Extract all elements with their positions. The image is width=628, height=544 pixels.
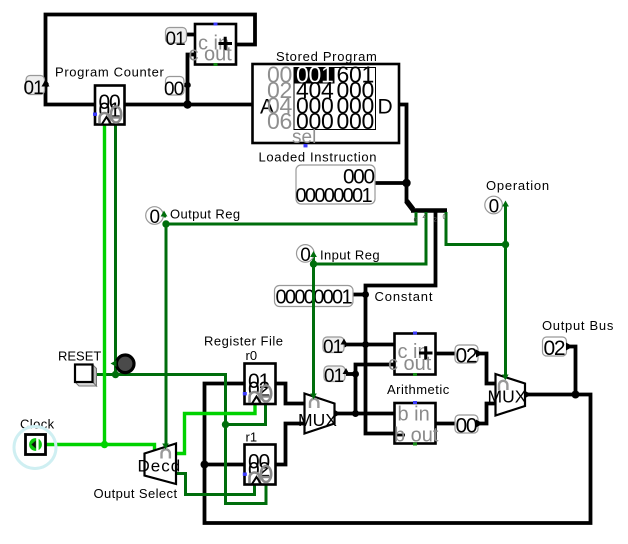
svg-text:Output Bus: Output Bus (542, 318, 614, 333)
wire mux2 out to output-bus loop (205, 384, 591, 524)
svg-text:c out: c out (388, 353, 432, 375)
svg-text:MUX: MUX (298, 410, 337, 430)
pin IN02 value 01 (adder increment) (166, 28, 187, 51)
node r1-D junction (201, 461, 209, 469)
node probe2 junction (352, 371, 359, 378)
wire splitter leg2 input-reg net (314, 212, 427, 396)
register U5 r0 (243, 348, 276, 404)
wire output-reg pin stub (164, 215, 167, 218)
svg-text:01: 01 (324, 366, 344, 387)
ROM U3 Stored Program (253, 49, 400, 148)
wire splitter leg3 to constant node and adder/sub inputs (366, 212, 436, 434)
WIRES-BRIGHTGREEN (46, 125, 255, 454)
svg-text:b in: b in (398, 404, 430, 426)
wire decoder out1 to r1 enable (176, 474, 255, 495)
wire r0 Q to mux1 in1 (276, 384, 305, 404)
node mux1-out junction (352, 410, 359, 417)
mux U7 MUX (register select) (298, 394, 341, 434)
pin OUT1 Output Reg (146, 207, 241, 229)
svg-text:02: 02 (544, 337, 565, 360)
node constant junction (362, 291, 369, 298)
wire splitter leg4 operation net (446, 212, 506, 245)
svg-text:000: 000 (337, 108, 374, 134)
wire operation pin to mux2 select (504, 205, 507, 376)
svg-text:Decd: Decd (138, 457, 182, 476)
svg-text:0: 0 (443, 214, 447, 221)
svg-text:r1: r1 (246, 430, 258, 445)
svg-text:00000001: 00000001 (296, 185, 373, 207)
wire PC Q to ROM A (125, 103, 253, 107)
node pin01 attach (42, 81, 48, 87)
probe P5 value 02 (adder2 out) (455, 345, 483, 368)
svg-text:00: 00 (456, 415, 477, 438)
svg-text:Constant: Constant (375, 289, 434, 304)
svg-text:Output Select: Output Select (94, 486, 178, 501)
svg-text:Operation: Operation (486, 178, 550, 193)
button SW1 RESET (58, 349, 101, 387)
wire splitter leg1 output-reg net (166, 212, 416, 447)
pin OUT2 Input Reg (297, 245, 380, 266)
wire probe00b to mux2 in2 (478, 404, 496, 424)
wire loaded-instruction probe stub (375, 181, 407, 185)
wire reset branch to r0 (226, 405, 266, 425)
LED D1 (reset indicator, off) (111, 355, 135, 373)
svg-text:0: 0 (150, 207, 161, 228)
wire adder2 in2 net (356, 365, 395, 414)
splitter S1 bit labels (414, 214, 447, 224)
svg-text:Output Reg: Output Reg (170, 207, 241, 222)
wire clock up to PC (103, 125, 106, 445)
wire r1 Q to mux1 in2 (276, 424, 305, 465)
wire subtractor out to probe00b (436, 422, 456, 426)
svg-text:Input Reg: Input Reg (320, 248, 380, 263)
wire decoder out0 to r0 enable (176, 405, 255, 454)
node adder-in2 bus junction (183, 100, 191, 108)
register U1 Program Counter (55, 65, 164, 125)
wire probe1 to adder2 in1 (344, 343, 395, 347)
node reset junction (112, 371, 119, 378)
decoder U4 Decd (94, 444, 182, 502)
svg-text:02: 02 (456, 345, 477, 368)
wire probe00 stub (184, 83, 188, 87)
wire input-reg over constant box (312, 284, 315, 309)
clock CLK1 (14, 417, 56, 469)
wire input-reg pin stub (312, 256, 315, 264)
svg-text:0: 0 (300, 245, 311, 266)
svg-text:Register File: Register File (204, 334, 283, 349)
probe P2 Loaded Instruction (259, 150, 378, 208)
wire probe2 stub (346, 372, 356, 376)
node operation junction (502, 241, 509, 248)
svg-text:4: 4 (423, 214, 427, 221)
adder U8 (arithmetic +) (388, 332, 436, 377)
wire adder2 out to probe02 (436, 352, 456, 356)
svg-text:D: D (378, 96, 393, 119)
adder U2 (+1) (189, 23, 237, 67)
svg-text:RESET: RESET (58, 349, 101, 364)
wire adder in2 branch down to bus (188, 55, 196, 105)
svg-text:MUX: MUX (488, 387, 527, 407)
node probe1 attach (341, 342, 347, 348)
svg-text:01: 01 (166, 29, 186, 50)
splitter bar (411, 208, 447, 213)
wire reset up to PC (114, 125, 117, 375)
wire ROM D down to splitter (399, 105, 407, 204)
svg-text:0: 0 (489, 197, 500, 218)
node probe00 attach (184, 82, 190, 88)
wire mux1 out to subtractor in1 (335, 412, 395, 416)
probe P6 value 00 (subtractor out) (455, 415, 483, 438)
wire pin01 to adder c-in (187, 33, 195, 37)
svg-text:00: 00 (164, 79, 184, 100)
svg-text:01: 01 (323, 337, 343, 358)
svg-text:r0: r0 (246, 348, 258, 363)
svg-text:06: 06 (267, 108, 292, 134)
node reset-r0 junction (222, 421, 229, 428)
register U6 r1 (243, 430, 276, 485)
wire top feedback loop adder out to PC D (46, 15, 256, 105)
WIRES-DARKGREEN (96, 125, 506, 504)
node clock junction (101, 441, 108, 448)
svg-text:01: 01 (24, 78, 44, 99)
pin OUT3 Operation (485, 178, 550, 218)
constant C1 00000001 (275, 286, 434, 309)
pin OUT4 Output Bus 02 (542, 318, 614, 360)
probe P1 value 00 (PC output) (164, 77, 191, 101)
svg-text:c out: c out (189, 44, 233, 66)
wire constant stub (353, 293, 366, 297)
wire reset net: button to registers (96, 375, 266, 504)
pin IN01 (top-left) (24, 76, 50, 100)
probe P4 value 01 (mux1 output) (324, 366, 349, 387)
wire probe02 to mux2 in1 (478, 354, 496, 384)
node output-bus junction (572, 391, 580, 399)
node input-reg junction (310, 260, 317, 267)
wire clock to decoder (46, 445, 155, 453)
node loaded-instruction junction (402, 179, 410, 187)
svg-text:Arithmetic: Arithmetic (387, 382, 450, 397)
svg-text:2: 2 (433, 217, 437, 224)
probe P3 value 01 (mux1 select path upper) (323, 337, 347, 358)
svg-text:6: 6 (414, 217, 418, 224)
svg-text:Loaded Instruction: Loaded Instruction (259, 150, 378, 165)
wire output-bus pin stub (567, 347, 576, 395)
mux U10 MUX (operation select) (488, 374, 532, 416)
node output-reg junction (162, 220, 169, 227)
splitter trunk (407, 201, 414, 210)
svg-text:Program Counter: Program Counter (55, 65, 164, 80)
subtractor U9 (arithmetic -) (394, 401, 439, 447)
node adder2-in1 junction (362, 341, 369, 348)
wire feedback to r1 D (205, 463, 245, 467)
